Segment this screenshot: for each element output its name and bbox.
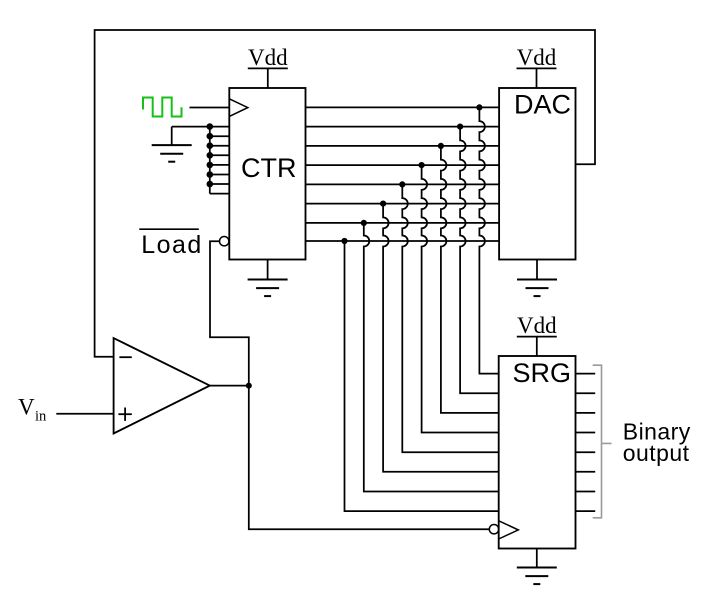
wire: counter output bit 7 bus line xyxy=(306,106,500,108)
wire: counter output bit 3 bus line xyxy=(306,183,500,185)
comparator op-amp xyxy=(114,338,210,433)
SRG clock input bubble xyxy=(489,525,498,534)
power symbol Vdd (DAC) xyxy=(517,45,557,88)
junction node: comparator output xyxy=(246,383,252,389)
svg-text:V: V xyxy=(18,395,35,420)
svg-text:output: output xyxy=(623,440,690,466)
wire: tap bit 7 to SRG input (with crossover hops) xyxy=(479,107,498,373)
wire: tap bit 0 to SRG input (with crossover hops) xyxy=(345,241,499,511)
ground (load inputs) xyxy=(152,127,192,162)
wire: counter output bit 6 bus line xyxy=(306,126,500,128)
wire: SRG output bit 5 xyxy=(576,412,596,414)
wire: SRG output bit 4 xyxy=(576,432,596,434)
wire: clock to CTR xyxy=(190,107,230,109)
ground (CTR) xyxy=(248,260,288,297)
svg-text:SRG: SRG xyxy=(513,358,572,388)
clock source square wave xyxy=(143,98,182,117)
wire: DAC output feedback loop to comparator inverting input xyxy=(95,30,595,357)
SRG clock input edge-triangle xyxy=(499,521,519,539)
DAC block xyxy=(499,88,575,260)
svg-text:DAC: DAC xyxy=(514,90,571,120)
label Binary output xyxy=(623,419,691,466)
wire: counter output bit 4 bus line xyxy=(306,164,500,166)
wire: ground to input column xyxy=(172,126,210,128)
junction dot bus bit 2 xyxy=(380,201,386,207)
power symbol Vdd (CTR) xyxy=(248,45,288,88)
wire: tap bit 2 to SRG input (with crossover hops) xyxy=(383,204,499,472)
wire: tap bit 5 to SRG input (with crossover hops) xyxy=(441,146,499,413)
wire: SRG output bit 2 xyxy=(576,471,596,473)
ground (DAC) xyxy=(517,260,557,297)
junction dots on input column xyxy=(207,123,214,187)
binary output bracket xyxy=(593,365,612,518)
label CTR xyxy=(241,153,297,183)
junction dot bus bit 0 xyxy=(341,238,347,244)
wire: comparator output to CTR load input xyxy=(210,241,249,385)
wire: counter output bit 0 bus line xyxy=(306,240,500,242)
wire: SRG output bit 3 xyxy=(576,451,596,453)
svg-text:in: in xyxy=(35,408,47,424)
label DAC xyxy=(514,90,571,120)
junction dot bus bit 1 xyxy=(361,220,367,226)
wire: Vin to comparator non-inverting input xyxy=(56,413,113,415)
label Vin xyxy=(18,395,47,425)
wire: comparator output to SRG clock xyxy=(249,386,489,530)
wire: SRG output bit 0 xyxy=(576,510,596,512)
junction dot bus bit 7 xyxy=(476,104,482,110)
wire: SRG output bit 6 xyxy=(576,392,596,394)
wire: tap bit 6 to SRG input (with crossover hops) xyxy=(460,127,499,394)
wire: counter output bit 5 bus line xyxy=(306,145,500,147)
ground (SRG) xyxy=(517,549,557,585)
counter block CTR xyxy=(229,88,305,260)
junction dot bus bit 4 xyxy=(419,162,425,168)
comparator non-inverting input marker xyxy=(118,408,131,421)
power symbol Vdd (SRG) xyxy=(517,313,557,356)
wire: counter output bit 1 bus line xyxy=(306,222,500,224)
junction dot bus bit 6 xyxy=(457,124,463,130)
shift register block SRG xyxy=(499,356,576,549)
svg-text:Vdd: Vdd xyxy=(248,45,288,70)
comparator inverting input marker xyxy=(119,356,131,358)
wire: tap bit 3 to SRG input (with crossover hops) xyxy=(402,184,498,452)
CTR clock input edge-triangle xyxy=(229,99,248,117)
label Load (active low) xyxy=(139,229,203,259)
junction dot bus bit 5 xyxy=(438,143,444,149)
svg-text:Load: Load xyxy=(141,231,203,259)
wire: tap bit 1 to SRG input (with crossover hops) xyxy=(364,223,499,492)
junction dot bus bit 3 xyxy=(399,181,405,187)
wire: tap bit 4 to SRG input (with crossover hops) xyxy=(422,165,499,432)
wire: CTR parallel data input column xyxy=(210,127,230,194)
wire: counter output bit 2 bus line xyxy=(306,203,500,205)
wire: SRG output bit 1 xyxy=(576,491,596,493)
label SRG xyxy=(513,358,572,388)
svg-text:CTR: CTR xyxy=(241,153,297,183)
svg-text:Vdd: Vdd xyxy=(517,45,557,70)
svg-text:Vdd: Vdd xyxy=(517,313,557,338)
wire: SRG output bit 7 xyxy=(576,373,596,375)
CTR load input bubble xyxy=(220,237,229,246)
wire: comparator output xyxy=(210,385,249,387)
